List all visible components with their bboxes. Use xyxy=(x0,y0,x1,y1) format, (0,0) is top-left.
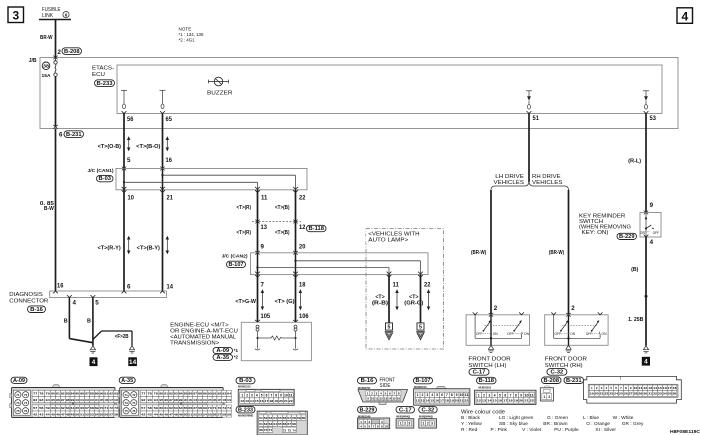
svg-text:72: 72 xyxy=(24,393,28,397)
svg-text:*2: *2 xyxy=(234,355,239,360)
svg-text:12: 12 xyxy=(477,399,482,403)
svg-text:B-233: B-233 xyxy=(97,81,113,87)
wire (GR-G) to shield xyxy=(420,275,422,323)
svg-text:Y : Yellow: Y : Yellow xyxy=(461,421,482,427)
svg-text:63: 63 xyxy=(174,406,178,410)
svg-text:33: 33 xyxy=(658,392,662,396)
svg-text:59: 59 xyxy=(297,416,301,420)
wire (B-Y) to diagnosis xyxy=(162,190,164,291)
svg-text:<T> (G): <T> (G) xyxy=(275,299,295,305)
wire (R-L) from pin 53 xyxy=(645,129,647,213)
svg-text:*1 : 134, 135: *1 : 134, 135 xyxy=(179,32,204,37)
svg-text:2: 2 xyxy=(246,394,248,398)
svg-text:16: 16 xyxy=(397,396,401,400)
svg-text:51: 51 xyxy=(188,412,192,416)
svg-text:104: 104 xyxy=(203,398,207,402)
svg-text:86: 86 xyxy=(80,392,84,396)
svg-text:<T>(B): <T>(B) xyxy=(275,230,290,236)
svg-text:(GR-G): (GR-G) xyxy=(404,300,423,306)
svg-text:B-231: B-231 xyxy=(66,132,82,138)
svg-text:<T>: <T> xyxy=(409,294,418,300)
svg-text:C-32: C-32 xyxy=(422,407,435,413)
svg-text:22: 22 xyxy=(289,399,293,403)
wire fuse to B-231 xyxy=(55,76,57,126)
svg-text:8: 8 xyxy=(451,393,453,397)
svg-text:66: 66 xyxy=(80,406,84,410)
connector B-233 xyxy=(236,406,255,413)
svg-text:11: 11 xyxy=(639,386,643,390)
connector B-118 xyxy=(477,377,497,384)
svg-text:98: 98 xyxy=(66,398,70,402)
ground wire B from pin 4 xyxy=(68,298,70,339)
svg-text:19: 19 xyxy=(274,399,278,403)
svg-text:59: 59 xyxy=(46,406,51,410)
connector B-16 xyxy=(358,377,377,384)
wire pin51 inner-outer xyxy=(528,114,530,129)
svg-text:27: 27 xyxy=(629,392,633,396)
svg-text:51: 51 xyxy=(259,416,263,420)
svg-text:62: 62 xyxy=(169,406,173,410)
connector B-231 xyxy=(564,377,584,384)
svg-text:81: 81 xyxy=(164,392,168,396)
svg-text:75: 75 xyxy=(16,409,20,413)
svg-text:71: 71 xyxy=(213,406,217,410)
svg-text:1: 1 xyxy=(543,395,545,399)
svg-text:23: 23 xyxy=(609,392,613,396)
svg-text:C-17: C-17 xyxy=(399,407,412,413)
svg-text:18: 18 xyxy=(508,399,513,403)
svg-text:21: 21 xyxy=(524,399,529,403)
svg-text:10: 10 xyxy=(384,424,387,428)
svg-text:7: 7 xyxy=(446,393,448,397)
svg-text:66: 66 xyxy=(188,406,192,410)
svg-text:P : Pink: P : Pink xyxy=(491,427,508,433)
svg-text:B-233: B-233 xyxy=(238,407,253,413)
svg-text:10: 10 xyxy=(284,394,288,398)
svg-text:109: 109 xyxy=(227,398,231,402)
svg-text:J/C (CAN1): J/C (CAN1) xyxy=(88,168,114,173)
svg-text:99: 99 xyxy=(71,398,75,402)
svg-text:46: 46 xyxy=(56,412,60,416)
svg-text:B-107: B-107 xyxy=(229,262,244,268)
svg-text:10: 10 xyxy=(634,386,638,390)
svg-text:105: 105 xyxy=(208,398,212,402)
svg-text:67: 67 xyxy=(85,406,89,410)
svg-text:18: 18 xyxy=(299,282,306,289)
svg-text:94: 94 xyxy=(46,398,51,402)
svg-text:73: 73 xyxy=(16,401,20,405)
svg-text:21: 21 xyxy=(600,392,604,396)
svg-text:93: 93 xyxy=(39,398,44,402)
svg-text:57: 57 xyxy=(109,412,113,416)
svg-text:(BR-W): (BR-W) xyxy=(549,250,564,256)
svg-text:30: 30 xyxy=(643,392,647,396)
svg-text:69: 69 xyxy=(203,406,207,410)
svg-text:74: 74 xyxy=(24,401,28,405)
svg-text:90: 90 xyxy=(208,392,212,396)
connector B-229 xyxy=(358,406,377,413)
svg-text:96: 96 xyxy=(164,398,168,402)
ECU internal terminating resistor xyxy=(256,325,259,328)
svg-text:67: 67 xyxy=(287,422,291,426)
svg-text:2: 2 xyxy=(483,393,485,397)
svg-text:55: 55 xyxy=(278,416,282,420)
svg-text:B-03: B-03 xyxy=(99,176,112,182)
svg-text:89: 89 xyxy=(95,392,99,396)
svg-text:B-208: B-208 xyxy=(544,378,560,384)
svg-text:65: 65 xyxy=(278,422,282,426)
svg-text:90: 90 xyxy=(100,392,104,396)
svg-text:VEHICLES: VEHICLES xyxy=(532,180,563,186)
svg-text:15: 15 xyxy=(392,396,396,400)
svg-text:58: 58 xyxy=(292,416,296,420)
wire (R-Y) to diagnosis xyxy=(123,190,125,291)
svg-text:61: 61 xyxy=(259,422,263,426)
svg-text:10: 10 xyxy=(460,393,464,397)
svg-text:74: 74 xyxy=(132,401,136,405)
svg-text:51: 51 xyxy=(80,412,84,416)
ground (engine) xyxy=(129,346,134,350)
svg-text:15: 15 xyxy=(430,399,434,403)
svg-text:51: 51 xyxy=(533,115,540,122)
wire to ground 14 xyxy=(93,331,102,340)
svg-text:103: 103 xyxy=(90,398,94,402)
svg-text:1. 25B: 1. 25B xyxy=(628,317,644,323)
svg-text:TRANSMISSION>: TRANSMISSION> xyxy=(170,341,219,347)
svg-text:<T>(O-B): <T>(O-B) xyxy=(98,144,122,150)
svg-text:84: 84 xyxy=(179,392,183,396)
svg-text:MU80078MD: MU80078MD xyxy=(238,414,253,418)
svg-text:OFF: OFF xyxy=(507,332,514,336)
svg-text:89: 89 xyxy=(203,392,207,396)
svg-text:21: 21 xyxy=(460,399,464,403)
svg-text:12: 12 xyxy=(643,386,647,390)
svg-text:ON: ON xyxy=(640,231,646,235)
svg-text:57: 57 xyxy=(287,416,291,420)
svg-text:93: 93 xyxy=(222,392,226,396)
svg-text:94: 94 xyxy=(154,398,159,402)
svg-text:1: 1 xyxy=(417,393,419,397)
svg-text:SI : Silver: SI : Silver xyxy=(595,427,616,433)
svg-text:83: 83 xyxy=(174,392,178,396)
svg-text:100: 100 xyxy=(184,398,188,402)
connector C-17 xyxy=(396,406,415,413)
wire pin56 (O-B) xyxy=(123,114,125,169)
svg-text:2: 2 xyxy=(571,305,575,312)
svg-text:13: 13 xyxy=(384,396,388,400)
svg-text:97: 97 xyxy=(61,398,65,402)
svg-text:101: 101 xyxy=(80,398,84,402)
svg-text:B-208: B-208 xyxy=(64,49,80,55)
svg-text:80: 80 xyxy=(159,392,163,396)
svg-text:11: 11 xyxy=(393,282,400,289)
svg-text:(BR-W): (BR-W) xyxy=(471,250,486,256)
svg-text:A-35: A-35 xyxy=(216,355,229,361)
svg-text:72: 72 xyxy=(217,406,221,410)
svg-text:2: 2 xyxy=(427,422,429,426)
svg-text:92: 92 xyxy=(141,398,146,402)
svg-text:11: 11 xyxy=(261,194,268,201)
svg-text:7: 7 xyxy=(261,282,265,289)
svg-text:15: 15 xyxy=(255,399,259,403)
svg-text:35: 35 xyxy=(668,392,672,396)
svg-text:77: 77 xyxy=(33,392,38,396)
svg-text:15: 15 xyxy=(493,399,498,403)
svg-text:12: 12 xyxy=(240,399,244,403)
svg-text:O : Orange: O : Orange xyxy=(586,421,610,427)
svg-text:20: 20 xyxy=(279,399,283,403)
svg-text:53: 53 xyxy=(90,412,94,416)
svg-text:6: 6 xyxy=(266,394,268,398)
svg-text:31: 31 xyxy=(648,392,652,396)
svg-text:L : Blue: L : Blue xyxy=(583,415,599,421)
svg-text:5: 5 xyxy=(127,157,131,164)
svg-text:65: 65 xyxy=(166,116,173,123)
ETACS internal input pin (diode arrow) at x=529 xyxy=(526,90,532,92)
svg-text:G : Green: G : Green xyxy=(547,415,568,421)
svg-text:2: 2 xyxy=(58,49,62,56)
diagnosis connector B-16 xyxy=(50,291,167,298)
svg-text:4: 4 xyxy=(681,9,688,23)
svg-text:SB : Sky blue: SB : Sky blue xyxy=(499,421,528,427)
svg-text:OFF: OFF xyxy=(476,332,483,336)
svg-text:J/B: J/B xyxy=(29,58,37,64)
svg-text:74: 74 xyxy=(292,428,296,432)
svg-text:53: 53 xyxy=(650,115,657,122)
svg-text:<T>(R): <T>(R) xyxy=(237,205,252,211)
svg-text:48: 48 xyxy=(174,412,178,416)
svg-text:52: 52 xyxy=(264,416,268,420)
svg-text:62: 62 xyxy=(264,422,268,426)
ground (diagnosis) xyxy=(90,346,95,350)
svg-text:65: 65 xyxy=(184,406,188,410)
svg-text:FRONT DOOR: FRONT DOOR xyxy=(468,357,510,363)
svg-text:BUZZER: BUZZER xyxy=(207,91,233,97)
CAN2 internal wires xyxy=(257,253,259,275)
svg-text:KEY: ON): KEY: ON) xyxy=(582,230,609,236)
svg-text:84: 84 xyxy=(71,392,75,396)
svg-text:<AUTOMATED MANUAL: <AUTOMATED MANUAL xyxy=(170,334,236,340)
svg-text:79: 79 xyxy=(46,392,51,396)
svg-text:B-229: B-229 xyxy=(360,407,375,413)
svg-text:70: 70 xyxy=(100,406,104,410)
svg-text:56: 56 xyxy=(127,116,134,123)
svg-text:10: 10 xyxy=(524,393,528,397)
svg-text:<T>(R-Y): <T>(R-Y) xyxy=(98,245,121,251)
svg-text:52: 52 xyxy=(85,412,89,416)
svg-text:70: 70 xyxy=(208,406,212,410)
svg-text:22: 22 xyxy=(530,399,535,403)
svg-text:46: 46 xyxy=(164,412,168,416)
svg-text:ECU: ECU xyxy=(92,72,105,78)
svg-text:95: 95 xyxy=(51,398,55,402)
fuse 38 15A xyxy=(53,56,57,60)
svg-text:11: 11 xyxy=(464,393,468,397)
svg-text:B-W: B-W xyxy=(44,206,54,212)
svg-text:9: 9 xyxy=(280,394,282,398)
svg-text:19: 19 xyxy=(514,399,519,403)
svg-text:(R-B): (R-B) xyxy=(372,300,389,306)
svg-text:86: 86 xyxy=(188,392,192,396)
svg-text:5: 5 xyxy=(436,393,438,397)
svg-text:20: 20 xyxy=(299,243,306,250)
svg-text:1: 1 xyxy=(423,422,425,426)
wire pin65 (B-O) xyxy=(162,114,164,169)
svg-text:49: 49 xyxy=(71,412,75,416)
svg-text:62: 62 xyxy=(61,406,65,410)
svg-text:B-229: B-229 xyxy=(619,234,635,240)
svg-text:17: 17 xyxy=(265,399,269,403)
svg-text:B-231: B-231 xyxy=(566,378,582,384)
svg-text:80: 80 xyxy=(51,392,55,396)
svg-text:*2 : 4G1: *2 : 4G1 xyxy=(179,37,196,42)
svg-text:J/C (CAN2): J/C (CAN2) xyxy=(222,253,248,258)
svg-text:9: 9 xyxy=(456,393,458,397)
svg-text:16: 16 xyxy=(260,399,264,403)
svg-text:101: 101 xyxy=(188,398,192,402)
svg-text:4: 4 xyxy=(431,393,433,397)
svg-text:44: 44 xyxy=(46,412,51,416)
svg-text:14: 14 xyxy=(388,396,392,400)
svg-text:85: 85 xyxy=(75,392,79,396)
svg-text:52: 52 xyxy=(193,412,197,416)
svg-text:5: 5 xyxy=(419,325,422,331)
svg-text:50: 50 xyxy=(75,412,79,416)
svg-text:81: 81 xyxy=(56,392,60,396)
svg-text:B-03: B-03 xyxy=(239,378,252,384)
svg-text:ON: ON xyxy=(602,332,608,336)
svg-text:77: 77 xyxy=(141,392,146,396)
svg-text:34: 34 xyxy=(663,392,667,396)
svg-text:18: 18 xyxy=(673,386,677,390)
svg-text:69: 69 xyxy=(259,428,263,432)
svg-text:56: 56 xyxy=(283,416,287,420)
svg-text:BR-W: BR-W xyxy=(40,35,53,41)
svg-text:FRONT DOOR: FRONT DOOR xyxy=(545,357,587,363)
svg-text:103: 103 xyxy=(198,398,202,402)
svg-text:<T>G-W: <T>G-W xyxy=(235,299,257,305)
svg-text:85: 85 xyxy=(184,392,188,396)
svg-text:LG : Light green: LG : Light green xyxy=(499,415,534,421)
svg-text:67: 67 xyxy=(193,406,197,410)
wire (B) key switch to ground xyxy=(645,237,647,346)
junction connector J/C(CAN2) B-107 xyxy=(251,253,429,275)
svg-text:MU802797: MU802797 xyxy=(358,386,371,390)
svg-text:47: 47 xyxy=(169,412,173,416)
svg-text:4: 4 xyxy=(92,359,96,366)
connector B-03 xyxy=(236,377,255,384)
svg-text:92: 92 xyxy=(33,398,38,402)
svg-text:93: 93 xyxy=(148,398,153,402)
key reminder switch B-229 xyxy=(640,213,661,238)
svg-text:83: 83 xyxy=(66,392,70,396)
svg-text:9: 9 xyxy=(650,202,654,209)
svg-text:<T>(B): <T>(B) xyxy=(275,205,290,211)
svg-text:B-16: B-16 xyxy=(361,378,374,384)
connector B-107 xyxy=(414,377,433,384)
svg-text:16: 16 xyxy=(57,283,64,290)
svg-text:OR ENGINE-A-M/T-ECU: OR ENGINE-A-M/T-ECU xyxy=(170,328,238,334)
svg-text:82: 82 xyxy=(169,392,173,396)
svg-text:56: 56 xyxy=(213,412,217,416)
svg-text:1: 1 xyxy=(241,394,243,398)
svg-text:63: 63 xyxy=(66,406,70,410)
svg-text:4: 4 xyxy=(644,359,648,366)
svg-text:OFF: OFF xyxy=(586,332,593,336)
svg-text:44: 44 xyxy=(154,412,159,416)
svg-text:92: 92 xyxy=(217,392,221,396)
svg-text:21: 21 xyxy=(167,194,174,201)
svg-text:97: 97 xyxy=(169,398,173,402)
svg-text:20: 20 xyxy=(519,399,524,403)
svg-text:6: 6 xyxy=(59,132,63,139)
svg-text:2: 2 xyxy=(404,422,406,426)
svg-text:21: 21 xyxy=(284,399,288,403)
svg-text:Wire colour code: Wire colour code xyxy=(461,410,505,416)
svg-text:54: 54 xyxy=(203,412,207,416)
svg-text:SWITCH (LH): SWITCH (LH) xyxy=(468,363,506,369)
svg-text:78: 78 xyxy=(39,392,44,396)
svg-text:8: 8 xyxy=(515,393,517,397)
svg-text:106: 106 xyxy=(299,313,309,320)
svg-text:9: 9 xyxy=(520,393,522,397)
svg-text:<T>(B-Y): <T>(B-Y) xyxy=(137,245,160,251)
svg-text:DIAGNOSIS: DIAGNOSIS xyxy=(9,292,43,298)
svg-text:3: 3 xyxy=(426,393,428,397)
svg-text:5: 5 xyxy=(388,325,391,331)
svg-text:15A: 15A xyxy=(42,73,52,79)
svg-text:14: 14 xyxy=(129,359,137,366)
svg-text:64: 64 xyxy=(71,406,75,410)
svg-text:13: 13 xyxy=(245,399,249,403)
page ref 4 xyxy=(677,8,693,23)
svg-text:53: 53 xyxy=(269,416,273,420)
svg-text:32: 32 xyxy=(653,392,657,396)
svg-text:(B): (B) xyxy=(631,267,638,273)
svg-text:76: 76 xyxy=(24,409,28,413)
svg-text:60: 60 xyxy=(159,406,163,410)
svg-text:12: 12 xyxy=(299,224,306,231)
svg-text:<F>2B: <F>2B xyxy=(115,334,129,340)
svg-text:58: 58 xyxy=(114,412,118,416)
ground (key switch) xyxy=(643,346,648,350)
svg-text:<T>: <T> xyxy=(375,294,384,300)
svg-text:W : White: W : White xyxy=(613,415,634,421)
junction connector J/C(CAN1) B-03 xyxy=(116,169,307,190)
svg-text:3: 3 xyxy=(431,422,433,426)
svg-text:73: 73 xyxy=(124,401,128,405)
svg-text:14: 14 xyxy=(425,399,429,403)
svg-text:100: 100 xyxy=(75,398,79,402)
svg-text:22: 22 xyxy=(299,194,306,201)
svg-text:BR : Brown: BR : Brown xyxy=(543,421,568,427)
svg-text:45: 45 xyxy=(159,412,163,416)
svg-text:71: 71 xyxy=(269,428,273,432)
svg-text:13: 13 xyxy=(261,224,268,231)
svg-text:4: 4 xyxy=(650,239,654,246)
wire BR-W from fusible link xyxy=(55,20,57,58)
svg-text:10: 10 xyxy=(371,396,375,400)
svg-text:48: 48 xyxy=(66,412,70,416)
svg-text:60: 60 xyxy=(51,406,55,410)
svg-text:108: 108 xyxy=(222,398,226,402)
svg-text:106: 106 xyxy=(213,398,217,402)
svg-text:87: 87 xyxy=(193,392,197,396)
svg-text:14: 14 xyxy=(487,399,492,403)
svg-text:MU801515: MU801515 xyxy=(479,386,492,390)
svg-text:49: 49 xyxy=(179,412,183,416)
svg-text:B: B xyxy=(87,319,91,325)
